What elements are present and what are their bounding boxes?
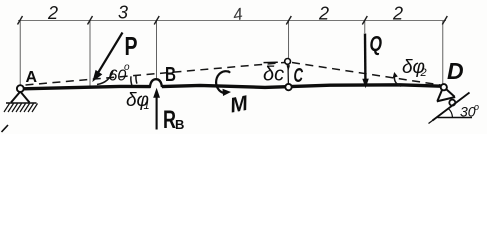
svg-text:B: B [175, 117, 184, 132]
svg-text:D: D [447, 58, 464, 84]
svg-text:C: C [294, 65, 304, 87]
svg-text:Q: Q [370, 33, 383, 56]
svg-text:P: P [125, 31, 138, 61]
svg-text:1: 1 [144, 100, 150, 112]
svg-text:2: 2 [392, 4, 403, 24]
svg-text:3: 3 [118, 3, 128, 23]
svg-text:δc: δc [263, 64, 284, 86]
svg-text:2: 2 [318, 4, 329, 24]
svg-text:A: A [26, 69, 38, 86]
svg-text:o: o [124, 62, 130, 73]
svg-text:2: 2 [420, 67, 427, 79]
svg-text:B: B [165, 64, 176, 86]
svg-text:o: o [474, 102, 479, 112]
svg-text:2: 2 [47, 3, 58, 23]
